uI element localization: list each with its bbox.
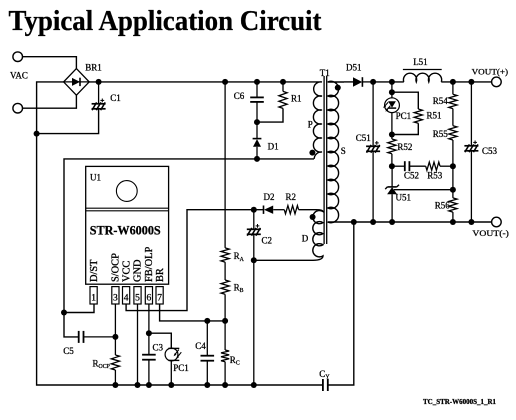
label S: [341, 146, 346, 156]
winding D (aux): [254, 210, 323, 261]
label BR1: [85, 62, 102, 72]
wire pin3 down: [114, 304, 116, 355]
wire DC+ top rail: [89, 81, 315, 83]
label R56: [435, 200, 451, 210]
junction S/OCP at C5: [112, 334, 118, 340]
svg-text:FB/OLP: FB/OLP: [144, 247, 155, 282]
label C51: [356, 133, 371, 143]
junction bottom rail at ROCP: [112, 382, 118, 388]
svg-text:L51: L51: [413, 57, 428, 67]
junction secondary rail at R56: [450, 219, 456, 225]
wire U51 ref to divider: [394, 189, 453, 191]
svg-text:VOUT(-): VOUT(-): [472, 228, 509, 238]
resistor R54: [449, 82, 457, 109]
pin label S/OCP: [111, 253, 122, 282]
label CY: [319, 369, 330, 381]
label C4: [195, 341, 206, 351]
label ROCP: [93, 358, 110, 370]
wire primary ground rail: [37, 82, 323, 385]
junction secondary rail at CY: [351, 219, 357, 225]
svg-text:C1: C1: [110, 93, 121, 103]
polarity dot S: [335, 85, 341, 91]
svg-text:C3: C3: [153, 343, 164, 353]
svg-text:GND: GND: [133, 259, 144, 282]
pin 3 box: [112, 287, 119, 304]
pin 6 box: [145, 287, 152, 304]
label R53: [427, 171, 443, 181]
svg-text:D: D: [302, 234, 309, 244]
junction secondary rail at C51: [370, 219, 376, 225]
svg-text:C5: C5: [63, 346, 74, 356]
wire R51 branch: [392, 92, 418, 109]
label D: [302, 234, 309, 244]
wire PC1 branch top: [391, 82, 393, 98]
svg-text:BR: BR: [155, 268, 166, 282]
svg-text:4: 4: [124, 293, 129, 303]
wire C1 return: [37, 109, 99, 134]
junction R53/R55: [450, 163, 456, 169]
wire secondary top rail b: [441, 81, 491, 83]
pin label GND: [133, 259, 144, 282]
wire pin1 to drain net: [64, 304, 94, 313]
capacitor C2: [247, 210, 261, 385]
svg-text:C6: C6: [234, 91, 245, 101]
wire AC top to bridge: [23, 57, 77, 69]
svg-text:TC_STR-W6000S_1_R1: TC_STR-W6000S_1_R1: [423, 398, 496, 406]
label R2: [286, 192, 297, 202]
svg-text:6: 6: [147, 293, 152, 303]
capacitor CY: [323, 379, 328, 391]
label L51: [413, 57, 428, 67]
junction top at C51: [370, 79, 376, 85]
label C3: [153, 343, 164, 353]
capacitor C3: [142, 355, 156, 385]
svg-text:STR-W6000S: STR-W6000S: [90, 223, 161, 237]
pin 1 box: [90, 287, 97, 304]
svg-text:C2: C2: [262, 235, 273, 245]
resistor R51: [392, 109, 423, 135]
label VOUT(-): [472, 228, 509, 238]
label RA: [234, 251, 245, 263]
junction ground rail / C1 return: [34, 131, 40, 137]
polarity dot P: [309, 150, 315, 156]
IC U1 package: [86, 166, 169, 284]
polarity dot D: [310, 214, 316, 220]
wire drain to C5: [64, 313, 79, 337]
label VOUT(+): [472, 67, 509, 77]
node VAC terminal top: [13, 52, 23, 62]
svg-text:U1: U1: [90, 173, 101, 183]
junction bottom rail at C4: [204, 382, 210, 388]
label T1: [320, 68, 330, 78]
junction R55/R56/ref: [450, 187, 456, 193]
svg-text:S: S: [341, 146, 346, 156]
pin label BR: [155, 268, 166, 282]
svg-text:PC1: PC1: [396, 111, 412, 121]
wire RA-RB: [224, 262, 226, 280]
svg-text:R55: R55: [433, 129, 449, 139]
label R54: [433, 96, 449, 106]
wire pin6 down: [148, 304, 150, 355]
title: Typical Application Circuit: [9, 5, 322, 37]
junction top rail at C6: [254, 79, 260, 85]
transformer T1 core: [324, 76, 327, 244]
resistor RB: [221, 280, 229, 321]
svg-text:7: 7: [157, 293, 162, 303]
capacitor C4: [201, 321, 215, 385]
svg-text:D51: D51: [346, 62, 362, 72]
wire VCC route pin4: [126, 210, 263, 311]
capacitor C5: [79, 331, 116, 343]
capacitor C52: [392, 161, 426, 171]
svg-text:5: 5: [135, 293, 140, 303]
wire CY to secondary return: [328, 222, 354, 385]
capacitor C1: [92, 82, 106, 110]
winding S (secondary): [328, 81, 344, 222]
node VOUT(-) terminal: [492, 217, 502, 227]
resistor ROCP: [111, 355, 119, 385]
svg-text:C52: C52: [404, 171, 419, 181]
winding P (primary): [313, 82, 322, 159]
junction BR at RC: [222, 318, 228, 324]
wire drain rail: [64, 159, 314, 313]
label RB: [234, 282, 244, 294]
label C53: [482, 146, 498, 156]
label D51: [346, 62, 362, 72]
wire FB to PC1 collector: [149, 333, 171, 348]
label PC1 secondary: [396, 111, 412, 121]
diode D51: [353, 77, 373, 87]
junction top rail at R1: [280, 79, 286, 85]
resistor R55: [449, 126, 457, 190]
label P: [308, 120, 313, 130]
label D1: [268, 141, 279, 151]
capacitor C6: [250, 82, 264, 122]
pin 5 box: [134, 287, 141, 304]
label D2: [264, 192, 275, 202]
node VAC terminal bottom: [13, 103, 23, 113]
resistor R53: [426, 162, 453, 170]
svg-text:D2: D2: [264, 192, 275, 202]
junction bottom rail at C3: [146, 382, 152, 388]
label C1: [110, 93, 121, 103]
resistor RC: [221, 321, 229, 385]
svg-text:R1: R1: [291, 94, 302, 104]
svg-text:VCC: VCC: [121, 261, 132, 282]
wire pin7 BR: [160, 304, 226, 321]
junction BR at C4: [204, 318, 210, 324]
resistor R52: [388, 135, 396, 167]
junction drain net at C5: [61, 310, 67, 316]
label U51: [396, 192, 412, 202]
label VAC: [10, 71, 28, 81]
svg-text:T1: T1: [320, 68, 330, 78]
svg-text:R53: R53: [427, 171, 443, 181]
diode D1: [253, 122, 262, 159]
resistor R1: [257, 82, 287, 122]
svg-text:C4: C4: [195, 341, 206, 351]
junction bottom rail at RC: [222, 382, 228, 388]
resistor R56: [449, 190, 457, 222]
label R51: [427, 110, 442, 120]
wire PC1 emitter: [170, 360, 172, 385]
svg-text:R51: R51: [427, 110, 442, 120]
junction top at C53: [468, 79, 474, 85]
label R55: [433, 129, 449, 139]
junction C6/R1/D1: [254, 119, 260, 125]
wire AC bottom to bridge: [23, 95, 77, 108]
label C2: [262, 235, 273, 245]
svg-text:R2: R2: [286, 192, 297, 202]
capacitor C53: [464, 82, 478, 222]
label R52: [397, 142, 412, 152]
junction top rail at C1: [96, 79, 102, 85]
svg-text:R54: R54: [433, 96, 449, 106]
svg-text:R52: R52: [397, 142, 412, 152]
svg-text:C53: C53: [482, 146, 498, 156]
junction FB node: [146, 330, 152, 336]
diode D2: [264, 206, 285, 214]
resistor R2: [284, 206, 298, 214]
junction PC1/R51 top: [389, 89, 395, 95]
junction C2 / D winding return: [251, 257, 257, 263]
pin label FB/OLP: [144, 247, 155, 282]
wire secondary top rail a: [373, 81, 404, 83]
resistor RA: [221, 248, 229, 262]
svg-text:S/OCP: S/OCP: [111, 253, 122, 282]
label R1: [291, 94, 302, 104]
junction secondary rail at U51: [389, 219, 395, 225]
label PC1 primary: [173, 363, 189, 373]
svg-text:D/ST: D/ST: [89, 259, 100, 282]
svg-text:1: 1: [91, 293, 96, 303]
wire pin5 to ground: [137, 304, 139, 385]
svg-text:PC1: PC1: [173, 363, 189, 373]
svg-text:U51: U51: [396, 192, 412, 202]
junction bottom rail at C2: [251, 382, 257, 388]
junction bottom rail at GND: [135, 382, 141, 388]
svg-text:R56: R56: [435, 200, 451, 210]
pin 4 box: [123, 287, 130, 304]
pin label D/ST: [89, 259, 100, 282]
svg-text:Typical Application Circuit: Typical Application Circuit: [9, 5, 322, 37]
junction R52/C52/U51: [389, 163, 395, 169]
svg-text:VAC: VAC: [10, 71, 28, 81]
wire S top to D51: [344, 81, 353, 83]
label C52: [404, 171, 419, 181]
junction VCC at C2: [251, 207, 257, 213]
optocoupler PC1 LED: [383, 98, 399, 113]
svg-text:D1: D1: [268, 141, 279, 151]
wire R54-R55: [452, 109, 454, 126]
wire PC1 LED bottom: [391, 112, 393, 135]
wire RA feed: [224, 82, 226, 248]
junction top at R54: [450, 79, 456, 85]
label C5: [63, 346, 74, 356]
phototransistor PC1: [165, 348, 181, 361]
pin 7 box: [156, 287, 163, 304]
bridge rectifier BR1: [64, 69, 90, 96]
label document number: [423, 398, 496, 406]
label RC: [230, 355, 240, 367]
shunt regulator U51: [385, 166, 399, 222]
junction D1 anode on drain rail: [254, 156, 260, 162]
label STR-W6000S: [90, 223, 161, 237]
svg-text:VOUT(+): VOUT(+): [472, 67, 509, 77]
inductor L51: [403, 70, 442, 82]
junction top at PC1 branch: [389, 79, 395, 85]
svg-text:3: 3: [113, 293, 118, 303]
svg-text:C51: C51: [356, 133, 371, 143]
node VOUT(+) terminal: [492, 77, 502, 87]
junction top rail at RA feed: [222, 79, 228, 85]
label C6: [234, 91, 245, 101]
pin label VCC: [121, 261, 132, 282]
svg-text:BR1: BR1: [85, 62, 102, 72]
junction PC1/R51 bottom: [389, 132, 395, 138]
label U1: [90, 173, 101, 183]
junction bottom rail at PC1 emitter: [168, 382, 174, 388]
capacitor C51: [366, 82, 380, 222]
wire secondary return rail: [328, 221, 492, 223]
svg-text:P: P: [308, 120, 313, 130]
junction secondary rail at C53: [468, 219, 474, 225]
